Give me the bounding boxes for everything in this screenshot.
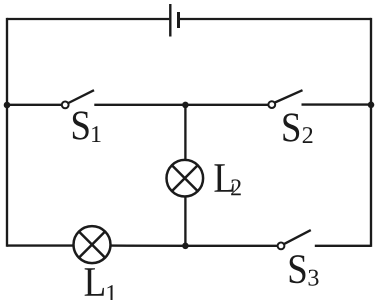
node junction bottom / L2 branch	[182, 243, 189, 250]
label S1	[73, 111, 101, 142]
node junction left of middle row	[4, 102, 11, 109]
label S3	[290, 255, 319, 286]
wire middle row right segment	[302, 103, 372, 105]
wire bottom to S3 segment	[185, 245, 277, 247]
switch S1 pivot circle	[62, 102, 69, 109]
wire middle row center segment	[94, 104, 185, 106]
switch S2 lever	[275, 90, 303, 102]
switch S2 pivot circle	[268, 101, 275, 108]
wire left vertical	[6, 18, 8, 247]
wire L2 branch lower	[184, 196, 186, 246]
switch S3 pivot circle	[278, 243, 285, 250]
wire right vertical	[370, 18, 372, 247]
wire L2 branch upper	[184, 105, 186, 161]
label S2	[283, 113, 312, 143]
wire bottom-right segment	[315, 245, 371, 247]
switch S3 lever	[284, 230, 311, 244]
lamp L2	[167, 160, 204, 197]
battery B1 long plate	[169, 4, 171, 37]
wire middle row left segment	[7, 104, 62, 106]
wire top-left segment	[7, 18, 169, 20]
label L1	[85, 268, 116, 300]
wire bottom-left segment	[7, 244, 74, 246]
node junction middle row / L2 branch	[182, 102, 189, 109]
node junction right of middle row	[368, 102, 375, 109]
wire bottom center segment	[110, 244, 186, 247]
wire middle row to S2 segment	[185, 104, 268, 106]
battery B1 short plate	[177, 12, 180, 28]
switch S1 lever	[68, 90, 94, 103]
wire top-right segment	[180, 18, 371, 20]
label L2	[214, 164, 240, 195]
lamp L1	[74, 226, 111, 263]
